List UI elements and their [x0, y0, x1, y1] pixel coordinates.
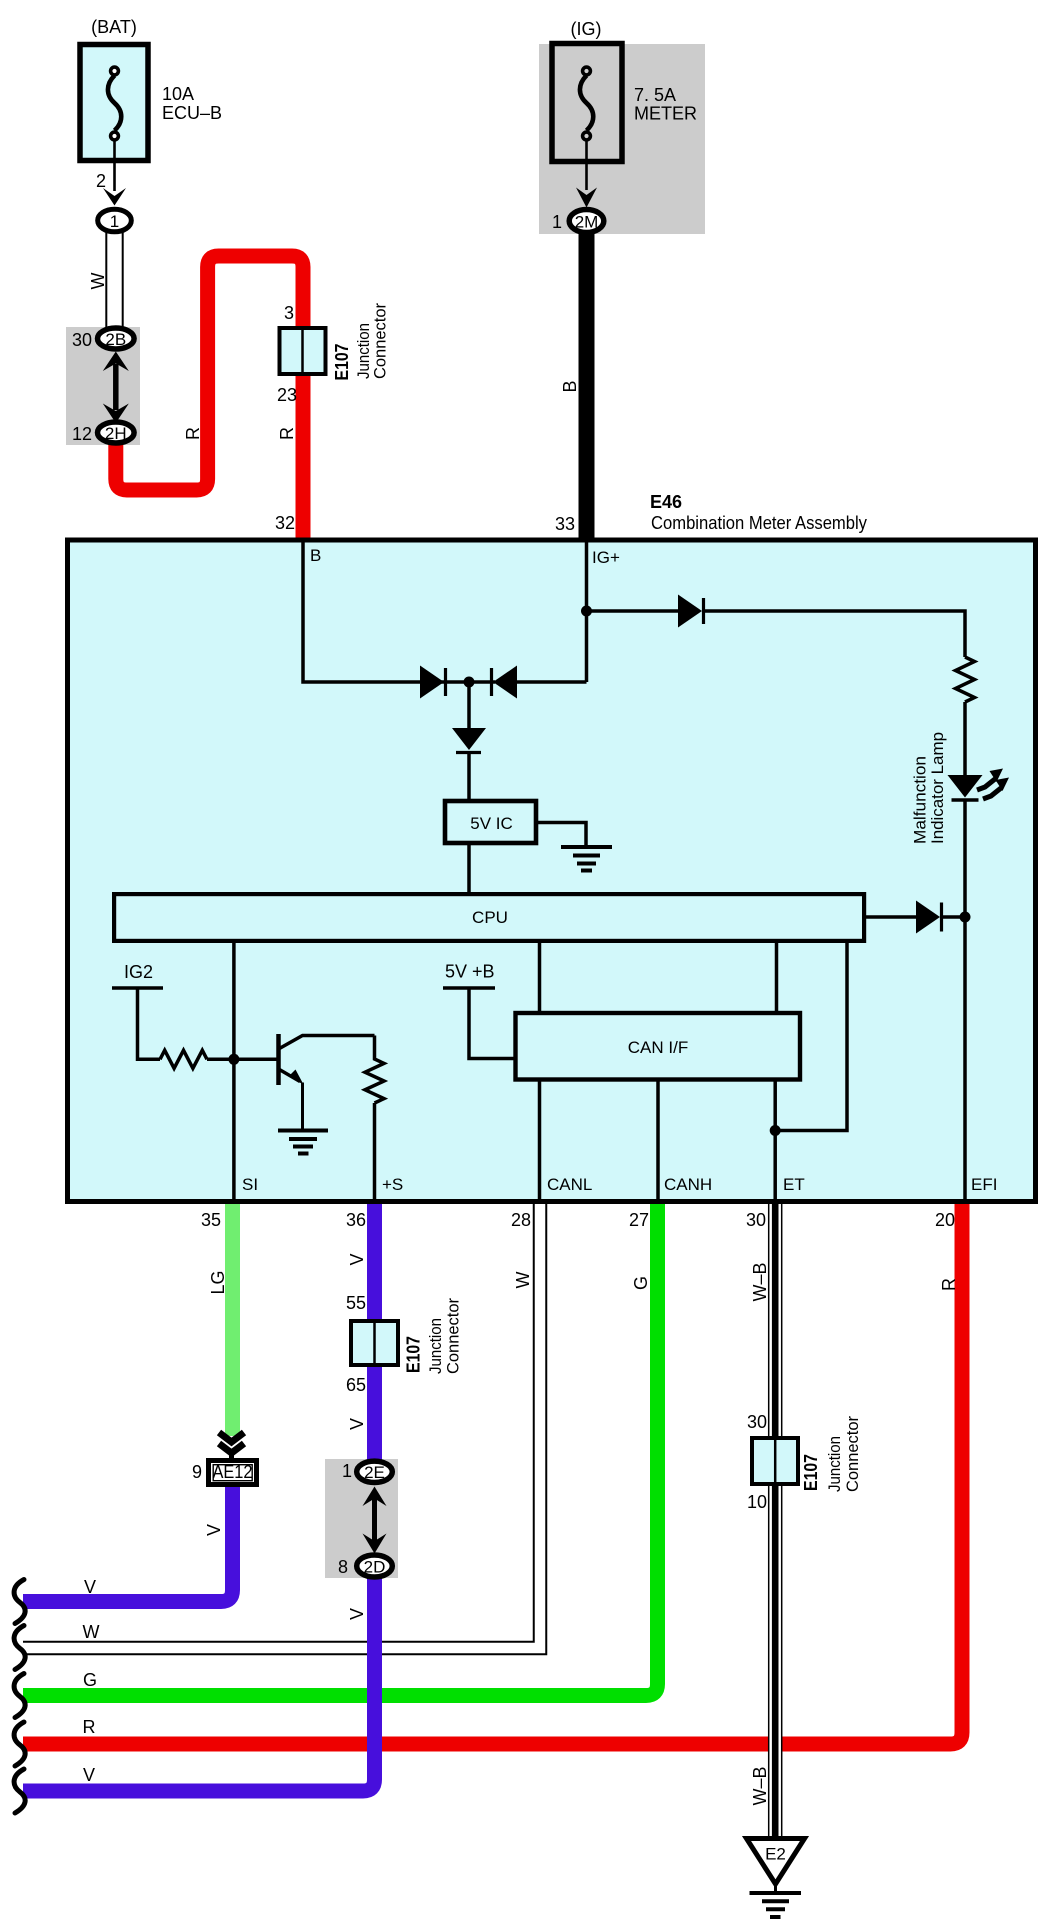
wire CANL from CAN I/F down to pin 28 [538, 1080, 542, 1201]
svg-text:V: V [347, 1253, 367, 1265]
svg-text:ET: ET [783, 1175, 805, 1194]
arrow into connector 2M [576, 188, 597, 208]
double chevron arrow into AE12 [219, 1433, 244, 1443]
junction node on EFI line [960, 912, 971, 923]
junction node on SI line [228, 1054, 239, 1065]
wire LG from pin 35 SI down to AE12 arrow (light green) [225, 1203, 240, 1436]
wire from LED down to EFI pin [963, 800, 967, 1201]
squiggle break symbol at left end of G wire [14, 1674, 25, 1718]
wire from resistor down to LED [963, 702, 967, 776]
wire CANH from CAN I/F down to pin 27 [656, 1080, 660, 1201]
svg-text:12: 12 [72, 424, 92, 444]
svg-text:33: 33 [555, 514, 575, 534]
svg-text:10: 10 [747, 1492, 767, 1512]
junction node between D1 and D2 [464, 677, 475, 688]
wire G from pin 27 CANH down and left (green) [23, 1203, 658, 1696]
connector 2H [98, 422, 135, 443]
squiggle break symbol at left end of V wire (AE12) [14, 1580, 25, 1624]
svg-text:W–B: W–B [750, 1766, 770, 1805]
diode D5 (pointing down) [452, 728, 486, 750]
svg-text:AE12: AE12 [213, 1462, 253, 1482]
svg-text:LG: LG [208, 1270, 228, 1294]
IG2 power symbol [112, 986, 163, 990]
svg-text:W–B: W–B [750, 1262, 770, 1301]
svg-text:(BAT): (BAT) [91, 17, 137, 37]
svg-text:W: W [513, 1272, 533, 1289]
junction connector E107 (W-B wire, pins 30/10) [752, 1438, 798, 1484]
squiggle break symbol at left end of V wire (2D) [14, 1769, 25, 1813]
svg-text:2D: 2D [364, 1558, 386, 1577]
svg-text:Connector: Connector [444, 1298, 463, 1374]
gray panel behind connectors 2E/2D [325, 1459, 398, 1578]
svg-text:E107: E107 [332, 344, 352, 381]
svg-text:Junction: Junction [426, 1318, 445, 1374]
connector 2D [357, 1555, 393, 1577]
connector 1 (round) [98, 209, 132, 232]
svg-text:Junction: Junction [825, 1436, 844, 1492]
svg-text:1: 1 [110, 212, 119, 231]
svg-text:E46: E46 [650, 492, 682, 512]
svg-text:E107: E107 [404, 1336, 424, 1373]
wire V from connector AE12 down and left (violet) [23, 1485, 233, 1602]
5V IC box [445, 801, 536, 843]
wire from 5V IC down to CPU [467, 844, 471, 894]
wire IG+ internal from pin 33 down [585, 542, 589, 682]
wire R from pin 20 EFI down and left (red) [23, 1203, 962, 1744]
wire from D3 right and down to resistor [705, 611, 965, 657]
wire from emitter down to ground [301, 1083, 304, 1131]
wire +S from resistor down to pin 36 [373, 1103, 377, 1201]
svg-text:Combination Meter Assembly: Combination Meter Assembly [651, 513, 867, 533]
svg-text:W: W [88, 273, 108, 290]
svg-text:G: G [83, 1670, 97, 1690]
svg-text:E107: E107 [801, 1454, 821, 1491]
svg-text:EFI: EFI [971, 1175, 997, 1194]
svg-text:2B: 2B [105, 330, 126, 349]
wire from ET node right and up to CPU [775, 941, 847, 1131]
svg-text:30: 30 [72, 330, 92, 350]
gray panel behind fuse METER and connector 2M [539, 44, 705, 234]
svg-text:20: 20 [935, 1210, 955, 1230]
svg-text:Indicator Lamp: Indicator Lamp [928, 732, 947, 844]
svg-text:R: R [277, 427, 297, 440]
svg-text:Connector: Connector [371, 303, 390, 379]
svg-text:IG+: IG+ [592, 548, 620, 567]
ground symbol E2 [750, 1891, 802, 1895]
svg-text:(IG): (IG) [571, 19, 602, 39]
svg-text:V: V [347, 1608, 367, 1620]
connector 2E [357, 1461, 393, 1482]
pin 1 lead of fuse METER [585, 141, 588, 190]
svg-text:METER: METER [634, 104, 697, 124]
fuse 10A ECU-B [80, 45, 148, 161]
resistor (malfunction lamp series) [956, 657, 975, 702]
svg-text:3: 3 [284, 303, 294, 323]
svg-text:ECU–B: ECU–B [162, 103, 222, 123]
E46 combination meter assembly box [68, 540, 1036, 1202]
svg-text:27: 27 [629, 1210, 649, 1230]
wire from CPU right to diode D4 [864, 915, 918, 919]
svg-text:+S: +S [382, 1175, 403, 1194]
svg-text:R: R [183, 427, 203, 440]
svg-text:Connector: Connector [843, 1416, 862, 1492]
svg-text:CAN I/F: CAN I/F [628, 1038, 688, 1057]
svg-text:R: R [939, 1278, 959, 1291]
junction connector E107 (R wire, pins 3/23) [280, 328, 326, 374]
connector 2B [98, 328, 135, 349]
svg-text:IG2: IG2 [124, 962, 153, 982]
ground E2 triangle [747, 1839, 805, 1885]
fuse 7.5A METER [552, 44, 622, 162]
diode D1 (B line, pointing right) [420, 666, 444, 699]
arrow into connector 1 [103, 188, 126, 206]
squiggle break symbol at left end of R wire [14, 1722, 25, 1766]
svg-text:V: V [204, 1524, 224, 1536]
svg-text:65: 65 [346, 1375, 366, 1395]
svg-text:E2: E2 [765, 1845, 786, 1864]
svg-text:B: B [560, 380, 580, 392]
wire from D5 to 5V IC box [467, 754, 471, 800]
svg-text:V: V [347, 1418, 367, 1430]
squiggle break symbol at left end of W wire [14, 1626, 25, 1670]
svg-text:2M: 2M [575, 213, 599, 232]
svg-text:R: R [83, 1717, 96, 1737]
svg-text:30: 30 [746, 1210, 766, 1230]
svg-text:W: W [83, 1622, 100, 1642]
junction node on IG+ line [581, 606, 592, 617]
svg-text:7. 5A: 7. 5A [634, 85, 676, 105]
diode D4 (CPU to EFI node, pointing right) [916, 901, 940, 934]
CAN I/F box [516, 1013, 801, 1080]
wire CPU to CAN I/F (left) [538, 941, 542, 1013]
svg-text:9: 9 [192, 1462, 202, 1482]
svg-text:5V +B: 5V +B [445, 962, 495, 982]
wire from IG+ node right to diode D3 [587, 609, 681, 613]
svg-text:55: 55 [346, 1293, 366, 1313]
wire B from connector 2M to pin 33 (black) [579, 232, 595, 540]
svg-text:28: 28 [511, 1210, 531, 1230]
wire ET from CAN I/F down to pin 30 [773, 1080, 777, 1201]
svg-text:CANL: CANL [547, 1175, 592, 1194]
svg-text:35: 35 [201, 1210, 221, 1230]
junction connector E107 (V wire, pins 55/65) [351, 1321, 398, 1365]
pin 2 lead of fuse ECU-B [113, 141, 116, 191]
5V +B power symbol [443, 986, 495, 990]
wire from resistor to transistor base [207, 1058, 277, 1062]
ground symbol (5V IC) [561, 845, 612, 849]
svg-text:V: V [83, 1765, 95, 1785]
svg-text:1: 1 [342, 1461, 352, 1481]
svg-text:SI: SI [242, 1175, 258, 1194]
svg-text:Malfunction: Malfunction [911, 756, 930, 844]
wire W-B from pin 30 ET down to ground E2 (white with black stripe) [768, 1203, 783, 1838]
svg-text:8: 8 [338, 1557, 348, 1577]
junction node on ET line [770, 1125, 781, 1136]
svg-text:30: 30 [747, 1412, 767, 1432]
connector 2M [569, 210, 604, 233]
wire from node down to diode D5 [467, 682, 471, 728]
wire V from pin 36 +S down through junction to 2E (violet) [367, 1203, 382, 1462]
wire V from connector 2D down and left (violet) [23, 1577, 375, 1791]
wire B internal from pin 32 down and right [303, 542, 420, 682]
wire SI from CPU down to pin 35 [232, 941, 236, 1201]
double arrow between 2B and 2H [113, 364, 119, 410]
wire CPU to CAN I/F (right) [775, 941, 779, 1013]
wire from diode D1 to diode D2 [440, 680, 495, 684]
ground symbol (transistor emitter) [278, 1129, 328, 1133]
svg-text:G: G [631, 1276, 651, 1290]
svg-text:23: 23 [277, 385, 297, 405]
wire W from connector 1 to connector 2B (white, black outline) [106, 230, 122, 329]
diode D2 (IG+ line, pointing left) [493, 666, 517, 699]
resistor (IG2 to transistor base) [160, 1050, 207, 1068]
svg-text:36: 36 [346, 1210, 366, 1230]
svg-text:10A: 10A [162, 84, 194, 104]
svg-text:CANH: CANH [664, 1175, 712, 1194]
LED malfunction indicator lamp [948, 775, 983, 798]
connector AE12 [209, 1461, 257, 1485]
svg-text:B: B [310, 546, 321, 565]
svg-text:1: 1 [552, 212, 562, 232]
wire W from pin 28 CANL down and left (white wire, black outline) [23, 1203, 540, 1648]
diode D3 (pointing right) [678, 595, 702, 628]
svg-text:2E: 2E [364, 1463, 385, 1482]
CPU box [114, 894, 864, 941]
resistor (collector load on +S line) [365, 1036, 384, 1104]
gray panel behind connectors 2B/2H [66, 327, 140, 445]
wire from diode D2 to IG+ line [515, 680, 587, 684]
wire R from connector 2H up to pin 32 (red) [116, 256, 303, 540]
transistor Q1 (NPN) [276, 1034, 281, 1085]
wire from 5V IC right to internal ground [538, 823, 586, 846]
svg-text:V: V [84, 1577, 96, 1597]
double arrow between 2E and 2D [372, 1496, 377, 1543]
svg-text:2: 2 [96, 171, 106, 191]
svg-text:CPU: CPU [472, 908, 508, 927]
svg-text:2H: 2H [105, 424, 127, 443]
svg-text:32: 32 [275, 513, 295, 533]
svg-text:5V IC: 5V IC [470, 814, 513, 833]
